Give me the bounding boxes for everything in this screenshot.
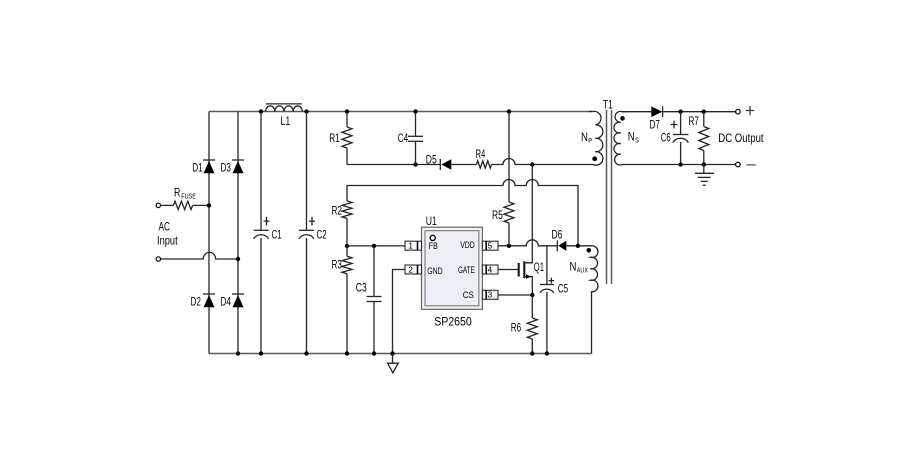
junction: D4 column to bottom rail xyxy=(236,351,240,355)
svg-text:CS: CS xyxy=(463,290,474,301)
diode D4 xyxy=(232,294,244,307)
svg-text:FUSE: FUSE xyxy=(181,194,196,201)
transformer primary winding NP xyxy=(589,111,603,165)
svg-text:N: N xyxy=(581,131,588,144)
svg-text:C6: C6 xyxy=(661,132,671,145)
resistor R2 xyxy=(342,201,352,246)
svg-text:U1: U1 xyxy=(426,215,437,228)
terminal: DC output plus xyxy=(736,109,741,114)
capacitor C2 xyxy=(299,112,315,354)
svg-text:1: 1 xyxy=(408,242,413,251)
junction: C3 top xyxy=(372,244,376,248)
op-amp / IC U1 body xyxy=(422,227,483,309)
wire: feedback top line R2 to D6 node with hops xyxy=(347,180,578,246)
diode D1 xyxy=(203,160,215,173)
svg-text:D3: D3 xyxy=(221,161,231,174)
pin 2 box xyxy=(405,265,422,274)
diode D2 xyxy=(203,294,215,307)
svg-text:R7: R7 xyxy=(689,115,699,128)
transformer secondary winding NS xyxy=(614,111,624,165)
wire: output bottom xyxy=(623,164,736,166)
svg-text:2: 2 xyxy=(408,265,413,274)
junction: CS node xyxy=(530,293,534,297)
svg-text:R: R xyxy=(174,187,180,200)
transistor Q1 MOSFET xyxy=(498,165,532,296)
resistor R1 xyxy=(342,112,352,165)
junction: C1 bottom xyxy=(259,351,263,355)
svg-text:DC Output: DC Output xyxy=(718,132,764,145)
diode D7 xyxy=(623,106,736,117)
phase dot NAUX xyxy=(587,248,592,253)
junction: R3 bottom xyxy=(345,351,349,355)
svg-text:AC: AC xyxy=(159,221,171,234)
svg-text:D5: D5 xyxy=(426,153,437,166)
svg-text:C2: C2 xyxy=(317,229,327,242)
svg-text:R6: R6 xyxy=(511,322,521,335)
junction: output+ C6 xyxy=(678,110,682,114)
junction: R1 top xyxy=(345,109,349,113)
svg-text:P: P xyxy=(588,138,592,145)
junction: output- R7 xyxy=(702,162,706,166)
junction: C1 top xyxy=(259,109,263,113)
svg-text:C3: C3 xyxy=(356,282,367,295)
transformer auxiliary winding NAUX xyxy=(589,246,598,354)
junction: output+ R7 xyxy=(702,110,706,114)
wire: bottom ground rail xyxy=(209,353,592,355)
junction: RFUSE to D1/D2 column xyxy=(207,203,211,207)
junction: output- C6 xyxy=(678,162,682,166)
svg-text:L1: L1 xyxy=(281,115,291,128)
terminal: AC neutral input xyxy=(156,257,160,261)
wire: VDD line with hop over drain column xyxy=(498,240,557,246)
svg-text:T1: T1 xyxy=(603,99,613,112)
wire: bridge right column (D3/D4) xyxy=(237,112,239,354)
inductor L1 xyxy=(266,104,303,112)
svg-text:Q1: Q1 xyxy=(534,261,544,274)
svg-text:D2: D2 xyxy=(191,296,201,309)
capacitor C4 xyxy=(408,112,423,165)
svg-text:N: N xyxy=(628,131,635,144)
junction: C3 bottom xyxy=(372,351,376,355)
junction: R6 bottom xyxy=(530,351,534,355)
pin 4 box xyxy=(482,265,498,274)
junction: D6 anode / NAUX / line B xyxy=(576,244,580,248)
svg-text:GND: GND xyxy=(427,266,442,277)
pin 3 box xyxy=(482,290,498,299)
svg-text:VDD: VDD xyxy=(460,240,475,251)
phase dot NP xyxy=(592,156,597,161)
svg-text:S: S xyxy=(635,138,639,145)
pin 5 box xyxy=(482,241,498,250)
svg-text:D1: D1 xyxy=(192,161,202,174)
wire: snubber bottom R1 to D5 xyxy=(347,164,440,166)
junction: R5 top rail xyxy=(507,109,511,113)
svg-text:Input: Input xyxy=(157,234,178,247)
pin 1 indicator circle xyxy=(430,235,435,240)
ground: signal ground triangle xyxy=(388,354,399,373)
resistor R4 xyxy=(477,161,492,168)
svg-text:R5: R5 xyxy=(492,209,503,222)
diode D5 xyxy=(440,159,476,170)
junction: VDD / R5 xyxy=(507,244,511,248)
phase dot NS xyxy=(620,116,625,121)
junction: C4 top xyxy=(413,109,417,113)
pin 1 box xyxy=(405,241,422,250)
junction: L1 right / C2 top xyxy=(304,109,308,113)
diode D6 xyxy=(557,240,589,251)
plus sign output xyxy=(746,106,755,115)
junction: drain node on clamp line xyxy=(530,162,534,166)
resistor R7 xyxy=(699,112,709,165)
svg-text:5: 5 xyxy=(488,242,493,251)
wire: top DC bus rail xyxy=(209,111,592,113)
svg-text:D4: D4 xyxy=(221,296,232,309)
svg-text:FB: FB xyxy=(429,241,438,252)
svg-text:3: 3 xyxy=(488,291,493,300)
wire: pin 2 GND to rail xyxy=(393,270,406,354)
resistor R5 xyxy=(504,112,514,246)
resistor RFUSE xyxy=(161,201,209,209)
svg-text:D7: D7 xyxy=(650,119,660,132)
svg-text:R4: R4 xyxy=(476,148,486,161)
diode D3 xyxy=(232,160,244,173)
capacitor C6 xyxy=(671,112,689,165)
svg-text:SP2650: SP2650 xyxy=(434,315,472,328)
wire: clamp line to drain node with hop over R5 column xyxy=(492,159,590,165)
terminal: DC output minus xyxy=(736,162,741,167)
svg-text:D6: D6 xyxy=(552,228,563,241)
svg-text:C1: C1 xyxy=(272,229,282,242)
wire: CS line pin 3 xyxy=(498,294,532,296)
wire: bridge left column (D1/D2) xyxy=(208,112,210,354)
svg-text:R1: R1 xyxy=(329,132,339,145)
svg-text:AUX: AUX xyxy=(577,268,588,275)
junction: neutral to D3/D4 column xyxy=(236,257,240,261)
wire: AC neutral with hop over left column xyxy=(161,252,238,259)
capacitor C3 xyxy=(367,246,382,354)
resistor R6 xyxy=(527,295,537,354)
junction: FB node R2/R3 xyxy=(345,244,349,248)
minus sign output xyxy=(746,164,755,166)
svg-text:GATE: GATE xyxy=(458,265,475,276)
svg-text:N: N xyxy=(570,261,577,274)
terminal: AC line input xyxy=(156,203,160,207)
junction: C4 bottom xyxy=(413,162,417,166)
transformer core xyxy=(607,110,612,284)
junction: C5 bottom xyxy=(545,351,549,355)
resistor R3 xyxy=(342,246,352,354)
wire: FB line to pin 1 xyxy=(347,245,405,247)
svg-text:R2: R2 xyxy=(332,204,342,217)
junction: GND to rail xyxy=(390,351,394,355)
ground: output earth symbol xyxy=(695,165,714,186)
svg-text:C5: C5 xyxy=(558,283,568,296)
svg-text:R3: R3 xyxy=(332,259,342,272)
capacitor C5 xyxy=(540,246,554,354)
svg-text:C4: C4 xyxy=(398,132,409,145)
svg-text:4: 4 xyxy=(488,265,493,274)
capacitor C1 xyxy=(254,112,270,354)
junction: C2 bottom xyxy=(304,351,308,355)
